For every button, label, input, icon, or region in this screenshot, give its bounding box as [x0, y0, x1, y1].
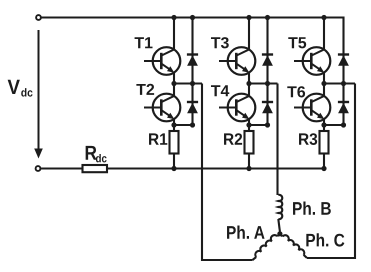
junction phase node / T3-T4	[246, 81, 251, 86]
junction top rail / T5 collector	[321, 15, 326, 20]
terminal negative	[36, 166, 41, 171]
transistor T6	[294, 94, 330, 122]
label Rdc	[86, 146, 107, 163]
Vdc polarity arrow	[34, 30, 43, 159]
wire T6 collector	[323, 84, 325, 97]
wire phase node row leg 2	[249, 82, 278, 84]
diode D5	[338, 17, 349, 84]
wire T3 emitter to phase node	[248, 72, 250, 83]
resistor Rdc	[83, 165, 108, 172]
wire negative terminal to Rdc	[41, 167, 83, 169]
terminal positive	[36, 15, 41, 20]
wire T2 collector	[173, 84, 175, 97]
junction phase node / T1-T2	[171, 81, 176, 86]
transistor T2	[144, 94, 180, 122]
junction emitter node / D2 anode	[190, 122, 195, 127]
transistor T5	[294, 47, 330, 75]
label R3	[299, 133, 317, 145]
resistor R2	[245, 131, 254, 154]
junction top rail / T3 collector	[246, 15, 251, 20]
wire phase A (leg 1 node to winding)	[202, 84, 253, 261]
wire phase node row leg 3	[324, 82, 355, 84]
wire R3 to bottom rail	[323, 154, 325, 169]
label R1	[149, 133, 167, 144]
junction phase node / D5-D6	[341, 81, 346, 86]
junction bottom rail / R3	[321, 166, 326, 171]
wire emitter node row leg 1	[174, 124, 193, 126]
diode D4	[262, 84, 273, 126]
junction top rail / T1 collector	[171, 15, 176, 20]
label T4	[211, 85, 229, 96]
wire T2 emitter to R1	[173, 119, 175, 132]
winding Ph. A	[253, 234, 280, 260]
wire T3 collector	[248, 18, 250, 50]
wire top rail (+Vdc bus)	[41, 16, 344, 18]
junction emitter node / T2	[171, 122, 176, 127]
label Ph. B	[293, 202, 331, 215]
label Vdc	[8, 80, 33, 97]
winding Ph. C	[280, 234, 307, 258]
wire T6 emitter to R3	[323, 119, 325, 132]
junction phase node / D1-D2	[190, 81, 195, 86]
wire T1 collector	[173, 18, 175, 50]
diode D3	[262, 17, 273, 84]
wire emitter node row leg 3	[324, 124, 344, 126]
wire R2 to bottom rail	[248, 154, 250, 169]
diode D2	[187, 84, 198, 126]
transistor T4	[219, 94, 255, 122]
junction emitter node / T4	[246, 122, 251, 127]
wire emitter node row leg 2	[249, 124, 268, 126]
label T2	[136, 84, 154, 95]
label T1	[135, 37, 153, 48]
transistor T3	[219, 47, 255, 75]
label R2	[224, 133, 242, 145]
wire phase C (leg 3 node to winding)	[307, 84, 355, 259]
junction emitter node / D4 anode	[265, 122, 270, 127]
label Ph. A	[227, 226, 265, 239]
node motor neutral (star point)	[277, 231, 282, 236]
junction top rail / D1 cathode	[190, 15, 195, 20]
diode D1	[187, 17, 198, 84]
junction top rail / D3 cathode	[265, 15, 270, 20]
wire phase node row leg 1	[174, 82, 202, 84]
junction phase node / D3-D4	[265, 81, 270, 86]
winding Ph. B	[278, 195, 282, 232]
junction emitter node / D6 anode	[341, 122, 346, 127]
junction bottom rail / R2	[246, 166, 251, 171]
wire phase B (leg 2 node to winding)	[276, 84, 278, 196]
label T6	[287, 86, 305, 97]
label T3	[211, 37, 229, 48]
junction phase node / T5-T6	[321, 81, 326, 86]
wire T1 emitter to phase node	[173, 72, 175, 83]
wire T4 collector	[248, 84, 250, 97]
wire bottom rail (dc return bus)	[107, 167, 324, 169]
diode D6	[338, 84, 349, 126]
label T5	[288, 37, 306, 48]
wire T4 emitter to R2	[248, 119, 250, 132]
junction bottom rail / R1	[171, 166, 176, 171]
label Ph. C	[306, 233, 344, 246]
junction emitter node / T6	[321, 122, 326, 127]
wire T5 emitter to phase node	[323, 72, 325, 83]
resistor R3	[320, 131, 329, 154]
resistor R1	[170, 131, 179, 154]
transistor T1	[144, 47, 180, 75]
wire R1 to bottom rail	[173, 154, 175, 169]
wire T5 collector	[323, 18, 325, 50]
